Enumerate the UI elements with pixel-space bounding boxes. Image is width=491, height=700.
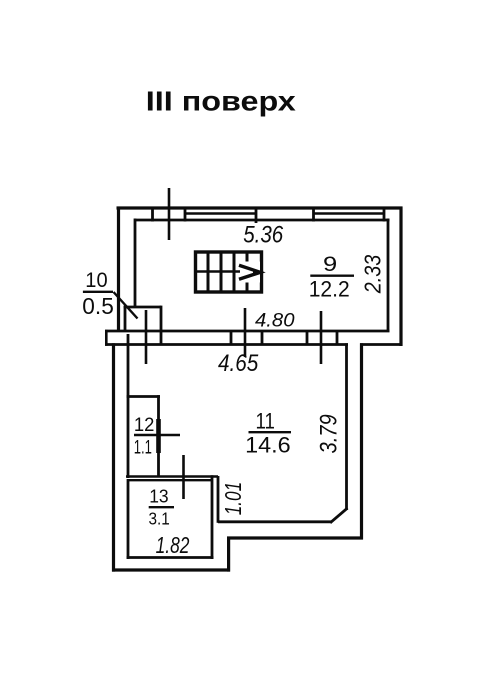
stair riser 4 [246,252,249,292]
svg-text:3.1: 3.1 [149,509,170,529]
middle wall jamb d [336,330,339,346]
room 13 fraction line [149,506,174,508]
axis tick middle wall left [145,310,148,364]
svg-text:4.80: 4.80 [255,310,295,332]
stair arrow clearing [241,262,260,283]
svg-text:III поверх: III поверх [146,86,297,117]
room 13 right wall [211,475,214,559]
room 13 bottom wall [127,556,214,559]
room 10 fraction line [83,291,113,293]
staircase outline [196,252,262,292]
stair mid landing line [196,270,241,273]
svg-text:1.82: 1.82 [156,532,190,558]
stair riser 3 [233,252,236,292]
bottom outer wall right part [227,536,363,539]
svg-text:11: 11 [256,409,275,434]
room 11 inner right wall [345,343,348,510]
svg-text:10: 10 [85,269,107,292]
middle wall jamb b [261,330,264,346]
leader line room 10 [114,292,138,319]
stair riser 2 [220,252,223,292]
wall right outer [399,207,402,347]
lower inner left wall [127,334,130,478]
middle wall jamb a [230,330,233,346]
wall right inner [387,219,390,333]
window jamb b [184,207,187,222]
svg-text:0.5: 0.5 [82,293,114,319]
room 11 corner chamfer [330,508,347,523]
room 11 inner left lower wall [217,476,220,523]
bottom outer wall [112,568,230,571]
dimension 2.33 vertical [360,255,386,294]
room 12 top wall [127,395,160,398]
svg-text:14.6: 14.6 [245,433,291,458]
axis tick top wall [168,188,171,240]
partition line rooms 12/13 lower [128,479,212,481]
middle wall bottom line right span [360,343,403,346]
bottom step vertical [227,537,230,572]
room 11 area label [245,433,291,458]
dimension 4.65 [218,350,259,377]
svg-text:2.33: 2.33 [360,255,386,294]
room 12 door leaf bar [156,419,161,453]
room 12 area label [134,438,152,459]
axis tick middle wall right [320,311,323,364]
room 10 closet top [124,306,161,309]
partition line rooms 12/13 upper [126,475,218,477]
room 12 door axis line [134,434,180,436]
room 10 area label [82,293,114,319]
svg-text:12.2: 12.2 [309,276,350,301]
dimension 1.01 vertical [220,482,246,516]
room 10 closet left [124,306,127,331]
wall top inner [135,219,390,222]
room 11 inner bottom wall [218,520,332,523]
axis tick partition [182,455,185,499]
room 10 number label [85,269,107,292]
room 13 left wall [127,479,130,559]
wall top outer [117,206,403,209]
middle wall left end cap [105,330,108,346]
window jamb a [151,207,154,222]
middle wall top line [105,330,390,333]
window W1 sill line [185,212,256,214]
middle wall bottom line left span [105,343,348,346]
svg-text:12: 12 [134,415,155,436]
wall left inner [134,219,137,309]
window jamb c [255,207,258,224]
svg-text:9: 9 [323,252,337,276]
svg-text:1.01: 1.01 [220,482,246,516]
dimension 1.82 [156,532,190,558]
room 13 number label [149,486,168,507]
lower-left outer wall [112,343,115,571]
room 10 closet right [160,306,163,346]
room 9 number label [323,252,337,276]
window jamb d [312,207,315,222]
room 11 number label [256,409,275,434]
axis tick middle wall centre [244,308,247,357]
svg-text:1.1: 1.1 [134,438,152,459]
svg-text:5.36: 5.36 [243,221,284,248]
room 9 fraction line [310,275,354,277]
room 11 fraction line [249,431,292,433]
wall left outer [117,207,120,333]
stair riser 1 [207,252,210,292]
dimension 5.36 [243,221,284,248]
room 13 area label [149,509,170,529]
svg-text:13: 13 [149,486,168,507]
room 12 number label [134,415,155,436]
title III поверх [146,86,297,117]
middle wall jamb c [306,330,309,346]
room 9 area label [309,276,350,301]
stair direction arrow [239,265,261,279]
svg-text:3.79: 3.79 [316,414,343,453]
lower-right outer wall [360,343,363,539]
room 12 right wall [157,395,160,477]
window jamb e [383,207,386,222]
svg-text:4.65: 4.65 [218,350,259,377]
window W2 sill line [314,212,385,214]
dimension 4.80 [255,310,295,332]
dimension 3.79 vertical [316,414,343,453]
